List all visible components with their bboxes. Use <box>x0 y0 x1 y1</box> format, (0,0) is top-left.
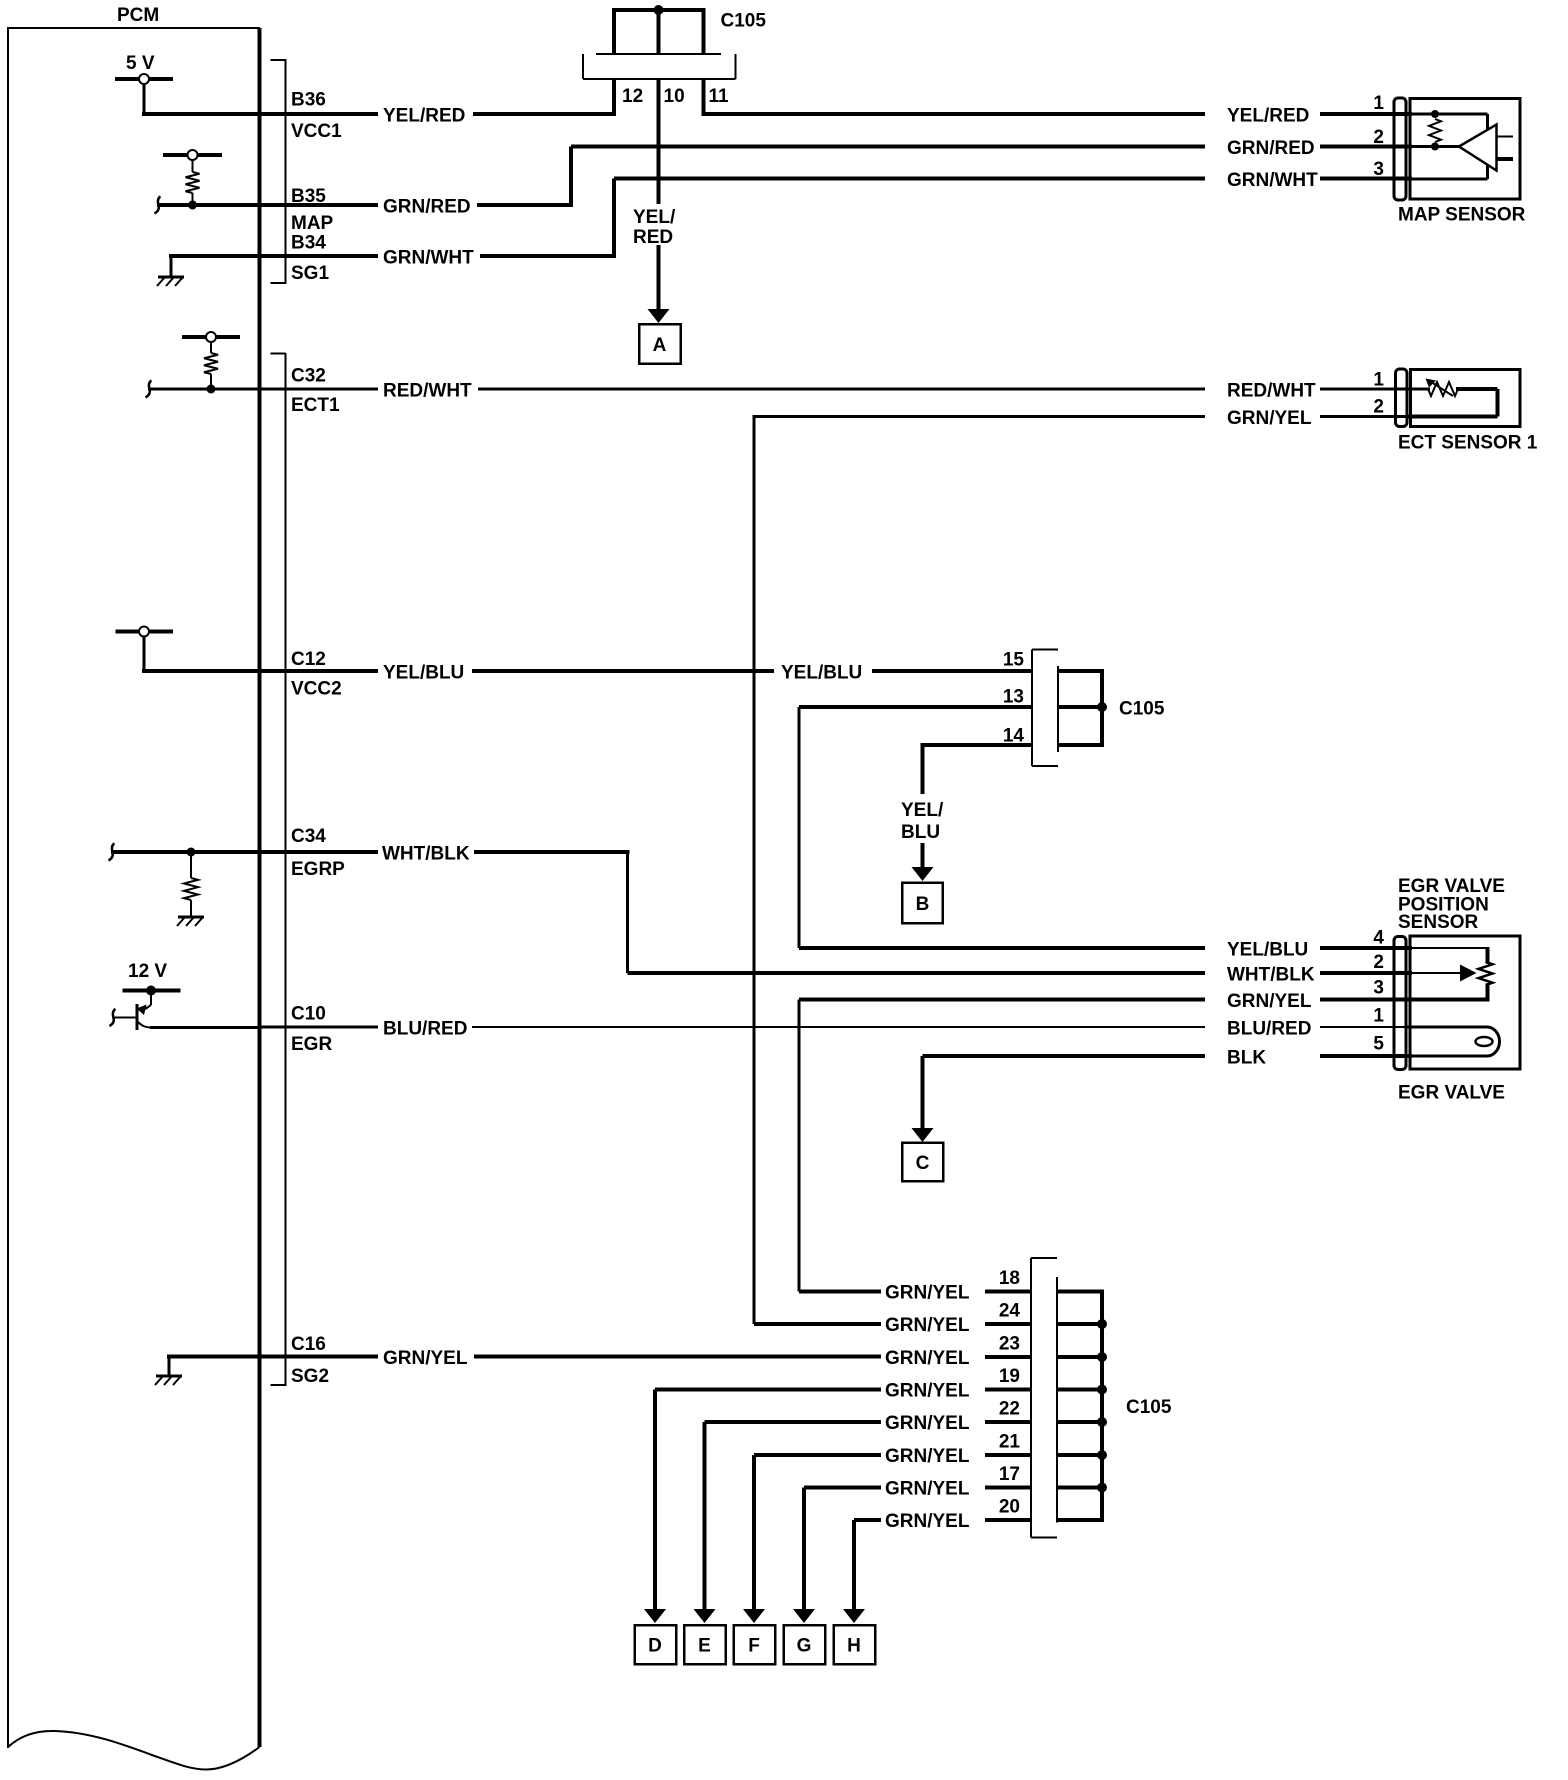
MAP SENSOR label <box>1398 205 1526 226</box>
EGR valve box <box>1410 936 1520 1069</box>
junction bridge above connector C105 <box>614 5 704 54</box>
svg-text:EGR: EGR <box>291 1034 332 1055</box>
C105 pin 12 <box>614 79 643 116</box>
label WHT/BLK (C34) <box>382 844 470 865</box>
svg-text:C16: C16 <box>291 1334 326 1355</box>
label YEL/BLU (C105 pin 15) <box>781 663 862 684</box>
svg-text:YEL/: YEL/ <box>901 800 944 821</box>
pin C32 ECT1 label <box>291 366 340 417</box>
connector C105 (bottom) body <box>1031 1258 1057 1538</box>
C105 pin 19 GRN/YEL <box>655 1366 1031 1402</box>
svg-text:1: 1 <box>1373 93 1384 114</box>
connector D box <box>635 1625 677 1664</box>
wire RED/WHT to ECT connector <box>1320 388 1412 391</box>
wire C12 YEL/BLU to C105 pin 15 <box>472 669 774 673</box>
C105 pin 17 GRN/YEL <box>804 1464 1031 1500</box>
svg-text:1: 1 <box>1373 1006 1384 1027</box>
svg-text:WHT/BLK: WHT/BLK <box>382 844 470 865</box>
label BLK (EGR pin 5) <box>1227 1048 1266 1069</box>
svg-text:C: C <box>916 1153 930 1174</box>
pin C12 VCC2 label <box>291 649 342 700</box>
PCM label <box>117 5 159 26</box>
ECT sensor pin numbers 1 2 <box>1373 370 1384 418</box>
label GRN/WHT (MAP pin 3) <box>1227 170 1318 191</box>
svg-text:21: 21 <box>999 1432 1021 1453</box>
bridge joining C105 pins 18-20 <box>1057 1290 1107 1523</box>
svg-text:GRN/YEL: GRN/YEL <box>885 1511 970 1532</box>
wire C32 RED/WHT inside PCM <box>148 388 378 391</box>
svg-text:GRN/WHT: GRN/WHT <box>1227 170 1318 191</box>
ECT sensor box <box>1411 370 1521 427</box>
label YEL/BLU (C12) <box>383 663 464 684</box>
svg-text:4: 4 <box>1373 928 1384 949</box>
wire BLK arrow to connector C <box>912 1056 934 1142</box>
C105 pin 14 <box>921 726 1033 747</box>
C105 pin 15 number <box>1003 650 1025 671</box>
svg-text:23: 23 <box>999 1334 1020 1355</box>
ECT sensor connector bracket <box>1396 369 1408 427</box>
wire C34 WHT/BLK to EGR sensor pin 2 <box>474 852 1205 973</box>
pin B35 MAP label <box>291 186 334 234</box>
svg-text:24: 24 <box>999 1301 1021 1322</box>
svg-text:GRN/YEL: GRN/YEL <box>885 1315 970 1336</box>
svg-text:E: E <box>698 1636 711 1657</box>
C105 pin 18 GRN/YEL <box>799 1268 1031 1304</box>
svg-text:RED/WHT: RED/WHT <box>383 381 472 402</box>
label YEL/RED (B36) <box>383 106 465 127</box>
svg-text:EGR VALVE: EGR VALVE <box>1398 1083 1505 1104</box>
transistor Q1 driver at C10 <box>112 991 152 1031</box>
svg-text:EGRP: EGRP <box>291 859 345 880</box>
wire C12 YEL/BLU inside PCM <box>142 669 378 673</box>
svg-text:MAP SENSOR: MAP SENSOR <box>1398 205 1526 226</box>
EGR position sensor potentiometer <box>1406 948 1493 1000</box>
connector C box <box>902 1143 943 1182</box>
EGR connector bracket <box>1394 937 1406 1070</box>
label WHT/BLK (EGR pin 2) <box>1227 965 1315 986</box>
svg-text:BLU/RED: BLU/RED <box>1227 1019 1311 1040</box>
pin C34 EGRP label <box>291 826 345 880</box>
svg-text:RED/WHT: RED/WHT <box>1227 381 1316 402</box>
wire C10 BLU/RED to EGR valve pin 1 <box>472 1026 1205 1028</box>
wire C105 pin 14 down toward B <box>921 745 925 794</box>
svg-text:C105: C105 <box>1119 699 1165 720</box>
C105 pin 20 GRN/YEL <box>854 1497 1031 1533</box>
svg-text:B35: B35 <box>291 186 326 207</box>
svg-text:C32: C32 <box>291 366 326 387</box>
connector C105 (middle) label <box>1119 699 1165 720</box>
svg-text:10: 10 <box>664 86 685 107</box>
svg-text:5 V: 5 V <box>126 53 155 74</box>
wire GRN/YEL arrow to connector H <box>843 1520 865 1623</box>
power 5 V supply symbol <box>115 53 173 114</box>
svg-text:G: G <box>797 1636 812 1657</box>
wire C34 WHT/BLK inside PCM <box>111 850 378 854</box>
wire B35 GRN/RED inside PCM <box>157 203 378 207</box>
pin C16 SG2 label <box>291 1334 329 1387</box>
wire break at B35 <box>155 197 161 214</box>
svg-text:PCM: PCM <box>117 5 159 26</box>
label YEL/BLU (EGR pin 4) <box>1227 940 1308 961</box>
svg-text:12: 12 <box>622 86 643 107</box>
pull-up resistor at C32 with 5V tap <box>182 332 240 394</box>
C105 pin 22 GRN/YEL <box>705 1399 1032 1435</box>
svg-text:GRN/RED: GRN/RED <box>1227 138 1315 159</box>
svg-text:2: 2 <box>1373 397 1384 418</box>
MAP sensor box <box>1410 99 1520 200</box>
svg-text:F: F <box>748 1636 760 1657</box>
C105 pin 21 GRN/YEL <box>754 1432 1031 1468</box>
svg-text:RED: RED <box>633 227 673 248</box>
wire YEL/BLU into C105 pin 15 <box>872 669 1032 673</box>
label RED/WHT (C32) <box>383 381 472 402</box>
wire C16 GRN/YEL inside PCM <box>167 1355 378 1359</box>
power VCC2 supply symbol <box>116 627 174 672</box>
svg-text:A: A <box>653 335 667 356</box>
MAP sensor connector bracket <box>1394 98 1406 200</box>
PCM module outline <box>8 27 260 1770</box>
label GRN/YEL (C16) <box>383 1348 468 1369</box>
wire YEL/RED to MAP connector <box>1320 112 1412 116</box>
EGR position sensor wiper arrow <box>1406 965 1477 982</box>
C105 pin 13 <box>799 687 1032 708</box>
bridge joining C105 pins 15/13/14 <box>1058 669 1107 747</box>
wire C105 pin 13 YEL/BLU down to EGR sensor pin 4 <box>799 707 1205 948</box>
pull-down resistor at C34 to ground <box>177 848 204 927</box>
EGR VALVE label <box>1398 1083 1505 1104</box>
svg-text:11: 11 <box>709 86 730 107</box>
svg-text:GRN/YEL: GRN/YEL <box>1227 408 1312 429</box>
wire break at transistor base <box>110 1009 116 1026</box>
svg-text:SG2: SG2 <box>291 1366 329 1387</box>
svg-text:15: 15 <box>1003 650 1025 671</box>
svg-text:H: H <box>847 1636 861 1657</box>
wire GRN/WHT to MAP connector <box>1320 177 1412 181</box>
svg-text:YEL/RED: YEL/RED <box>1227 106 1309 127</box>
sensor ground SG2 symbol <box>155 1357 182 1386</box>
wire GRN/YEL arrow to connector E <box>694 1422 716 1623</box>
wire B34 GRN/WHT to MAP sensor pin 3 <box>480 179 1205 257</box>
svg-text:YEL/BLU: YEL/BLU <box>781 663 862 684</box>
MAP sensor internal amplifier <box>1406 114 1513 179</box>
svg-text:YEL/BLU: YEL/BLU <box>1227 940 1308 961</box>
svg-text:17: 17 <box>999 1464 1020 1485</box>
connector bracket B (pins B36/B35/B34) <box>271 59 286 284</box>
wire YEL/RED drop to connector A <box>648 245 670 323</box>
MAP sensor pin numbers 1 2 3 <box>1373 93 1384 180</box>
svg-text:5: 5 <box>1373 1034 1384 1055</box>
connector H box <box>834 1625 876 1664</box>
wire 5V to pin B36 <box>142 112 378 116</box>
svg-text:B36: B36 <box>291 90 326 111</box>
svg-text:BLU: BLU <box>901 822 940 843</box>
svg-text:C34: C34 <box>291 826 326 847</box>
power 12 V supply symbol <box>123 961 181 996</box>
wire C105 pin 11 YEL/RED to MAP sensor pin 1 <box>704 112 1206 116</box>
pin B36 VCC1 label <box>291 90 342 143</box>
wire GRN/YEL arrow to connector F <box>743 1455 765 1623</box>
svg-text:1: 1 <box>1373 370 1384 391</box>
wire BLU/RED to EGR connector <box>1320 1026 1412 1028</box>
svg-text:C10: C10 <box>291 1004 326 1025</box>
MAP sensor internal resistor <box>1406 110 1488 151</box>
svg-text:BLK: BLK <box>1227 1048 1266 1069</box>
svg-text:C12: C12 <box>291 649 326 670</box>
wire GRN/YEL arrow to connector G <box>793 1488 815 1624</box>
svg-text:GRN/YEL: GRN/YEL <box>383 1348 468 1369</box>
wire GRN/YEL arrow to connector D <box>644 1390 666 1624</box>
svg-text:ECT SENSOR 1: ECT SENSOR 1 <box>1398 433 1538 454</box>
wire C10 BLU/RED inside PCM <box>150 1026 378 1030</box>
wire B36 YEL/RED to C105 pin 12 <box>473 112 614 116</box>
label GRN/RED (MAP pin 2) <box>1227 138 1315 159</box>
ECT SENSOR 1 label <box>1398 433 1538 454</box>
svg-text:D: D <box>648 1636 662 1657</box>
wire break at C32 <box>146 381 152 398</box>
label GRN/YEL (EGR pin 3) <box>1227 991 1312 1012</box>
connector F box <box>734 1625 776 1664</box>
svg-text:18: 18 <box>999 1268 1020 1289</box>
connector E box <box>684 1625 726 1664</box>
svg-text:SENSOR: SENSOR <box>1398 912 1479 933</box>
svg-text:YEL/BLU: YEL/BLU <box>383 663 464 684</box>
EGR valve solenoid coil <box>1406 1027 1500 1056</box>
connector B box <box>902 883 943 924</box>
C105 pin 11 <box>704 79 730 116</box>
svg-text:C105: C105 <box>1126 1397 1172 1418</box>
EGR pin numbers 4 2 3 1 5 <box>1373 928 1384 1055</box>
wire ECT sensor pin 2 GRN/YEL down to C105 pin 24 <box>754 408 1412 1324</box>
C105 pin 10 <box>659 79 685 204</box>
svg-text:VCC1: VCC1 <box>291 121 342 142</box>
connector C105 (top) label <box>721 11 767 32</box>
svg-text:20: 20 <box>999 1497 1020 1518</box>
svg-text:SG1: SG1 <box>291 263 329 284</box>
wire WHT/BLK to EGR connector <box>1320 971 1412 975</box>
wire EGR sensor pin 3 GRN/YEL down to C105 pin 18 <box>799 1000 1205 1292</box>
svg-text:BLU/RED: BLU/RED <box>383 1019 467 1040</box>
svg-text:GRN/YEL: GRN/YEL <box>885 1413 970 1434</box>
svg-text:GRN/YEL: GRN/YEL <box>885 1479 970 1500</box>
wire C16 GRN/YEL to C105 pin 23 <box>474 1355 881 1359</box>
connector bracket C (pins C32..C16) <box>271 353 286 1386</box>
sensor ground SG1 symbol <box>157 256 184 286</box>
svg-text:GRN/YEL: GRN/YEL <box>885 1381 970 1402</box>
label RED/WHT (ECT pin 1) <box>1227 381 1316 402</box>
pull-up resistor at B35 with 5V tap <box>163 150 222 210</box>
label BLU/RED (C10) <box>383 1019 467 1040</box>
wire YEL/BLU to EGR connector <box>1320 946 1412 950</box>
connector C105 (bottom) label <box>1126 1397 1172 1418</box>
C105 pin 24 GRN/YEL <box>754 1301 1031 1337</box>
connector G box <box>784 1625 826 1664</box>
label GRN/RED (B35) <box>383 197 471 218</box>
connector A box <box>639 324 681 364</box>
label BLU/RED (EGR pin 1) <box>1227 1019 1311 1040</box>
label YEL/RED (MAP pin 1) <box>1227 106 1309 127</box>
svg-text:3: 3 <box>1373 159 1384 180</box>
wire YEL/BLU arrow to connector B <box>912 843 934 881</box>
wire B35 GRN/RED to MAP sensor pin 2 <box>477 147 1205 206</box>
wire EGR valve pin 5 BLK <box>923 1054 1206 1058</box>
wire break at C34 <box>109 844 115 861</box>
wire C32 RED/WHT to ECT sensor pin 1 <box>478 388 1205 391</box>
svg-text:19: 19 <box>999 1366 1020 1387</box>
svg-text:C105: C105 <box>721 11 767 32</box>
label GRN/WHT (B34) <box>383 248 474 269</box>
svg-text:2: 2 <box>1373 127 1384 148</box>
pin C10 EGR label <box>291 1004 332 1056</box>
svg-text:B: B <box>916 894 930 915</box>
svg-text:ECT1: ECT1 <box>291 395 340 416</box>
svg-text:GRN/YEL: GRN/YEL <box>885 1348 970 1369</box>
svg-text:GRN/YEL: GRN/YEL <box>1227 991 1312 1012</box>
svg-text:GRN/WHT: GRN/WHT <box>383 248 474 269</box>
wire B34 GRN/WHT inside PCM <box>169 254 378 258</box>
pin B34 SG1 label <box>291 233 329 285</box>
svg-text:GRN/YEL: GRN/YEL <box>885 1446 970 1467</box>
svg-text:12 V: 12 V <box>128 961 167 982</box>
svg-text:2: 2 <box>1373 952 1384 973</box>
EGR VALVE POSITION SENSOR label <box>1398 876 1505 933</box>
svg-text:GRN/YEL: GRN/YEL <box>885 1283 970 1304</box>
svg-text:YEL/RED: YEL/RED <box>383 106 465 127</box>
label YEL/RED (drop wire to A) <box>633 207 676 248</box>
svg-text:GRN/RED: GRN/RED <box>383 197 471 218</box>
svg-text:MAP: MAP <box>291 213 334 234</box>
ECT sensor internal thermistor <box>1406 379 1498 417</box>
wire GRN/YEL to EGR connector <box>1320 998 1412 1002</box>
svg-text:14: 14 <box>1003 726 1025 747</box>
connector C105 (middle) body <box>1032 650 1058 767</box>
svg-text:22: 22 <box>999 1399 1020 1420</box>
label YEL/BLU (drop wire to B) <box>901 800 944 843</box>
C105 pin 23 GRN/YEL <box>885 1334 1031 1370</box>
svg-text:13: 13 <box>1003 687 1024 708</box>
svg-text:3: 3 <box>1373 978 1384 999</box>
wire BLK to EGR connector <box>1320 1054 1412 1058</box>
svg-text:VCC2: VCC2 <box>291 679 342 700</box>
svg-text:WHT/BLK: WHT/BLK <box>1227 965 1315 986</box>
svg-text:YEL/: YEL/ <box>633 207 676 228</box>
wire GRN/RED to MAP connector <box>1320 145 1412 149</box>
connector C105 (top) body <box>583 54 736 79</box>
svg-text:B34: B34 <box>291 233 326 254</box>
